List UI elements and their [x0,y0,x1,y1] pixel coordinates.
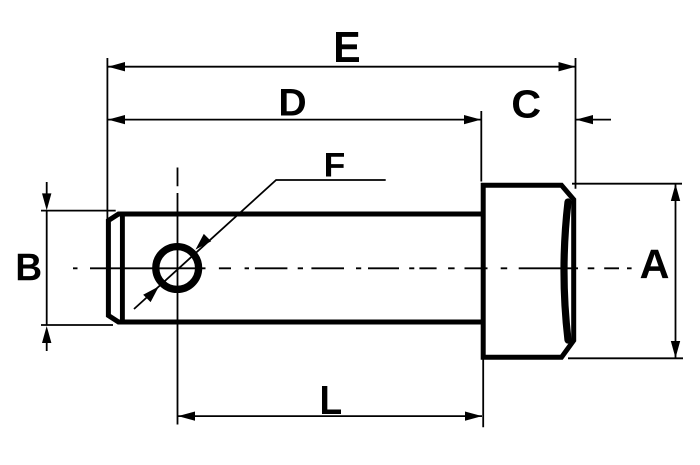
dimension A bottom arrowhead [671,341,680,358]
extension line B bottom [41,324,113,326]
dimension D right arrowhead [464,115,481,124]
extension line head left (for D and C) [480,111,482,182]
label C [513,90,540,118]
dimension A top arrowhead [671,184,680,201]
label E [336,32,359,62]
dimension C arrowhead [576,115,593,124]
extension line A bottom [568,357,683,359]
dimension C tail line [576,119,611,121]
dimension B top arrowhead [42,193,51,210]
dimension L left arrowhead [178,412,195,421]
label F [326,153,344,177]
dimension B top arrow tail [46,182,48,196]
extension line left end (for E and D) [106,58,108,220]
extension line L right [482,358,484,427]
dimension B bottom arrowhead [42,326,51,343]
hole upper-right arrowhead [196,234,212,250]
extension line A top [572,183,682,185]
dimension L right arrowhead [465,412,482,421]
pin head outline [483,185,574,357]
dimension L line [178,415,482,417]
extension line right end (for E and C) [575,58,577,189]
label A [641,250,669,278]
dimension E line [108,66,576,68]
extension line B top [41,210,116,212]
label B [18,254,41,280]
dimension D left arrowhead [108,115,125,124]
horizontal centerline [73,267,632,269]
dimension E left arrowhead [108,62,125,71]
label D [281,89,305,116]
dimension B line [46,211,48,326]
hole diameter leader line F [134,180,386,309]
hole lower-left arrowhead [143,286,159,302]
label L [322,386,341,414]
dimension A line [675,184,677,358]
vertical centerline of hole [177,168,179,425]
dimension E right arrowhead [559,62,576,71]
pin shaft outline [108,214,483,322]
dimension D line [108,119,481,121]
dimension B bottom arrow tail [46,340,48,351]
shaft left chamfer edge line [120,214,125,323]
head chamfer edge line [564,202,568,340]
cross hole [156,247,199,290]
